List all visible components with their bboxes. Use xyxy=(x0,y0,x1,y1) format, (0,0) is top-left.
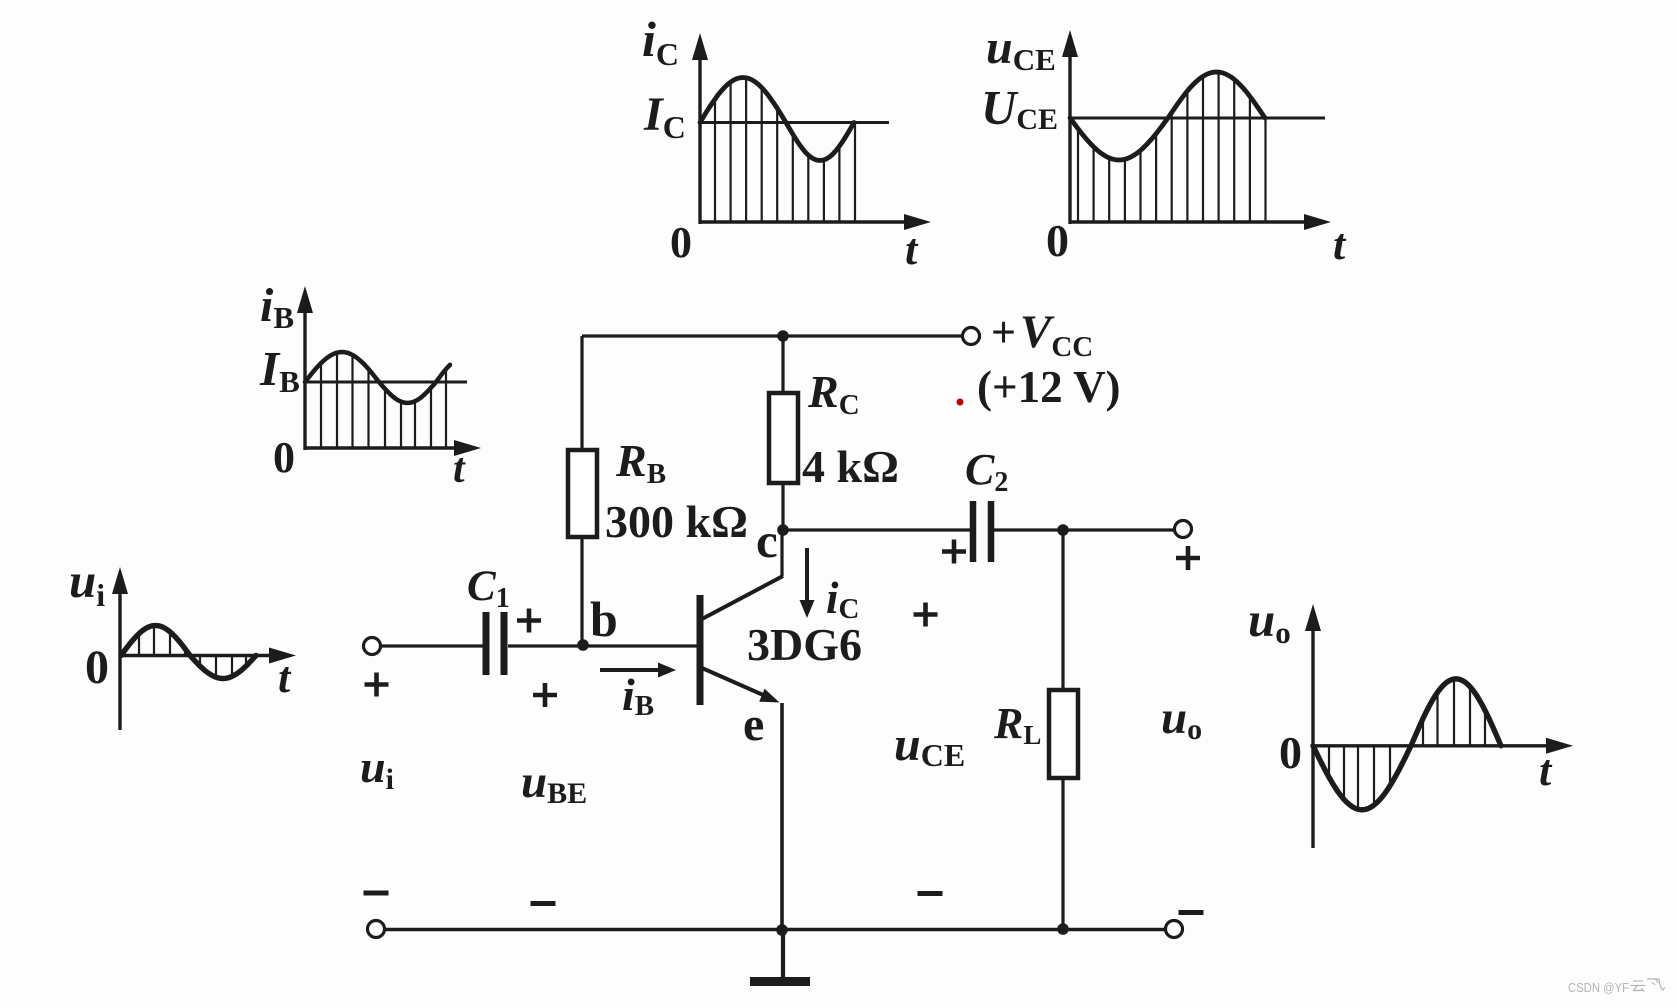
svg-text:t: t xyxy=(278,653,292,702)
svg-text:t: t xyxy=(1333,220,1347,269)
svg-text:+: + xyxy=(991,308,1016,357)
svg-text:(+12 V): (+12 V) xyxy=(977,362,1121,412)
svg-text:4 kΩ: 4 kΩ xyxy=(802,441,899,492)
svg-text:0: 0 xyxy=(1279,727,1302,778)
svg-text:e: e xyxy=(743,698,764,751)
svg-text:b: b xyxy=(590,591,618,647)
svg-text:0: 0 xyxy=(1046,215,1069,266)
svg-text:c: c xyxy=(756,513,778,568)
svg-text:CSDN @YF: CSDN @YF xyxy=(1568,980,1629,995)
svg-text:0: 0 xyxy=(85,641,109,694)
svg-text:300 kΩ: 300 kΩ xyxy=(605,496,748,547)
svg-text:t: t xyxy=(453,446,466,492)
svg-text:0: 0 xyxy=(273,433,295,482)
svg-text:0: 0 xyxy=(670,218,692,267)
svg-text:t: t xyxy=(905,225,919,274)
svg-text:3DG6: 3DG6 xyxy=(747,619,862,670)
svg-text:t: t xyxy=(1539,746,1553,795)
